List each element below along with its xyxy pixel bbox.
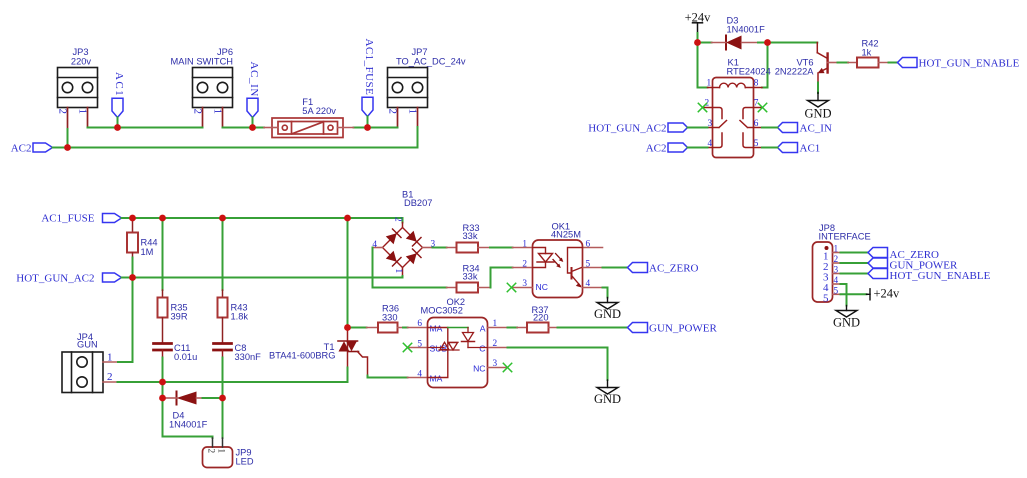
svg-text:5: 5 bbox=[834, 287, 839, 297]
svg-text:2: 2 bbox=[393, 217, 403, 222]
svg-text:4: 4 bbox=[834, 276, 839, 286]
svg-text:AC1: AC1 bbox=[113, 72, 125, 97]
JP8 pin 2 bbox=[833, 262, 841, 264]
wire AC1 flag stem bbox=[117, 117, 119, 127]
svg-text:+24v: +24v bbox=[685, 10, 712, 24]
svg-text:1: 1 bbox=[834, 245, 839, 255]
B1 diode bottom-right bbox=[406, 253, 417, 264]
svg-text:SUB: SUB bbox=[430, 344, 448, 354]
svg-text:1N4001F: 1N4001F bbox=[727, 24, 766, 34]
wire JP8-4 to GND bbox=[841, 284, 847, 306]
svg-text:4N25M: 4N25M bbox=[551, 230, 581, 240]
OK2 unconnected X pin5 bbox=[403, 343, 411, 351]
JP8 pin1 marker dot bbox=[825, 246, 829, 250]
svg-text:1: 1 bbox=[707, 79, 712, 89]
flag AC1 (left) at K1 bbox=[778, 143, 798, 153]
junction D3/VT6 bbox=[764, 39, 771, 46]
OK1 internal LED bbox=[533, 248, 555, 268]
diode D4 bbox=[166, 392, 203, 405]
optocoupler OK2 bbox=[403, 318, 511, 388]
svg-text:330nF: 330nF bbox=[235, 352, 262, 362]
svg-text:33k: 33k bbox=[463, 272, 478, 282]
svg-text:AC1_FUSE: AC1_FUSE bbox=[363, 39, 375, 96]
resistor R35 bbox=[158, 290, 168, 343]
OK2 unconnected X pin3 bbox=[503, 363, 511, 371]
C8 bottom pin bbox=[222, 350, 224, 358]
K1 unconnected X pin2 bbox=[698, 103, 706, 111]
svg-text:2: 2 bbox=[192, 109, 204, 115]
svg-text:6: 6 bbox=[754, 119, 759, 129]
JP6 pin 2 bbox=[202, 108, 204, 128]
svg-text:5A 220v: 5A 220v bbox=[302, 106, 336, 116]
wire R43 column from top bbox=[222, 218, 224, 290]
connector JP8 bbox=[813, 242, 841, 304]
svg-text:5: 5 bbox=[586, 260, 591, 270]
resistor R43 bbox=[218, 290, 228, 343]
capacitor C8 bbox=[214, 344, 232, 351]
K1 coil arcs bbox=[720, 83, 746, 87]
transistor VT6 bbox=[817, 43, 837, 83]
JP7 pin 2 bbox=[397, 108, 399, 128]
wire net AC_IN: JP6-1 to F1 bbox=[223, 127, 265, 129]
junction C11/JP4-2 bbox=[159, 379, 166, 386]
svg-text:5: 5 bbox=[754, 139, 759, 149]
svg-text:GND: GND bbox=[594, 307, 621, 321]
OK1 light arrows bbox=[553, 254, 563, 269]
OK1 pin 2 bbox=[513, 267, 533, 269]
wire VT6 emitter to GND bbox=[817, 83, 819, 94]
svg-text:NC: NC bbox=[473, 364, 485, 374]
wire net HOT_GUN_AC2 mid horizontal bbox=[122, 277, 403, 279]
flag AC_ZERO (left) bbox=[628, 263, 648, 273]
junction T1/R36 bbox=[344, 324, 351, 331]
JP8 pin 5 bbox=[833, 293, 841, 295]
wire AC1_FUSE flag stem bbox=[367, 116, 369, 127]
junction R43 top bbox=[219, 215, 226, 222]
wire R35 column from top bbox=[162, 218, 164, 290]
OK2 internal led bbox=[448, 328, 488, 348]
resistor R33 bbox=[447, 243, 491, 253]
wire JP8-1 to AC_ZERO bbox=[841, 252, 869, 254]
svg-text:4: 4 bbox=[417, 370, 422, 380]
svg-text:2N2222A: 2N2222A bbox=[775, 67, 815, 77]
junction AC2/JP3-2 bbox=[64, 144, 71, 151]
JP8 pin 1 bbox=[833, 252, 841, 254]
wire OK1-5 to AC_ZERO bbox=[603, 267, 628, 269]
ground GND at JP8 bbox=[836, 306, 857, 318]
flag AC2 (left, pointing right) bbox=[33, 143, 53, 152]
capacitor C11 bbox=[154, 344, 172, 351]
JP3 pin 1 bbox=[87, 108, 89, 128]
svg-text:LED: LED bbox=[236, 456, 254, 466]
svg-text:GND: GND bbox=[833, 316, 860, 330]
optocoupler OK1 bbox=[507, 240, 602, 298]
svg-text:1N4001F: 1N4001F bbox=[169, 419, 208, 429]
wire JP8-2 to GUN_POWER bbox=[841, 262, 869, 264]
wire T1 column bbox=[347, 218, 349, 328]
svg-text:AC_IN: AC_IN bbox=[248, 62, 260, 97]
svg-text:MOC3052: MOC3052 bbox=[421, 306, 463, 316]
B1 diode top-left bbox=[386, 233, 397, 244]
svg-text:330: 330 bbox=[382, 312, 398, 322]
K1 pin 5 NO contact bbox=[743, 133, 762, 148]
svg-text:JP6: JP6 bbox=[217, 47, 233, 57]
resistor R37 bbox=[517, 323, 558, 333]
OK2 internal MA rail bbox=[428, 328, 448, 378]
svg-text:AC2: AC2 bbox=[646, 142, 667, 154]
flag HOT_GUN_AC2 (right) mid bbox=[103, 273, 122, 282]
svg-text:220: 220 bbox=[533, 313, 549, 323]
supply +24v at JP8 bbox=[867, 289, 871, 300]
JP7 pin 1 bbox=[417, 108, 419, 128]
wire R37 to GUN_POWER bbox=[558, 327, 628, 329]
wire R33 to OK1-1 bbox=[490, 247, 513, 249]
OK2 pin 6 MA bbox=[408, 327, 428, 329]
JP4 pin 1 bbox=[103, 361, 118, 363]
svg-text:3: 3 bbox=[522, 279, 527, 289]
wire OK2-2 to GND bbox=[508, 348, 608, 381]
resistor R34 bbox=[447, 283, 491, 293]
wire JP8-5 to +24v bbox=[841, 293, 867, 295]
svg-text:MA: MA bbox=[430, 324, 443, 334]
svg-text:1M: 1M bbox=[141, 247, 154, 257]
JP9 pin 1 stub bbox=[222, 438, 224, 447]
wire net AC1_FUSE: F1 to JP7-2 bbox=[354, 127, 398, 129]
wire junction to R36 bbox=[348, 327, 367, 329]
svg-text:2: 2 bbox=[107, 371, 113, 383]
ground GND at OK1 bbox=[597, 298, 618, 310]
relay K1 bbox=[698, 78, 766, 158]
flag HOT_GUN_AC2 (right) bbox=[668, 123, 688, 132]
wire R44 to HOT_GUN_AC2 bbox=[132, 258, 134, 278]
OK1 unconnected X pin3 bbox=[507, 283, 515, 291]
OK2 pin 4 MA bbox=[408, 377, 428, 379]
wire junction right to VT6 collector bbox=[768, 42, 818, 44]
B1 pin 2 stub bbox=[402, 223, 404, 228]
wire D3 to junction right bbox=[758, 42, 768, 44]
K1 pin 3 common + blade bbox=[708, 121, 727, 128]
wire B1-3 to R33 bbox=[433, 247, 447, 249]
svg-text:AC1_FUSE: AC1_FUSE bbox=[41, 213, 94, 225]
svg-text:2: 2 bbox=[522, 260, 527, 270]
wire JP4-1 up to HOT_GUN_AC2 bbox=[118, 278, 133, 363]
flag GUN_POWER (left) bbox=[628, 323, 648, 333]
JP6 pin 1 bbox=[222, 108, 224, 128]
svg-text:1: 1 bbox=[493, 319, 498, 329]
svg-text:1: 1 bbox=[216, 449, 226, 454]
svg-text:1: 1 bbox=[522, 240, 527, 250]
junction D4 anode bbox=[159, 395, 166, 402]
wire net AC2 bottom bbox=[53, 127, 418, 148]
wire net AC1_FUSE mid horizontal bbox=[122, 218, 403, 223]
connector JP4 bbox=[62, 352, 103, 393]
wire +24v node to D3 bbox=[698, 42, 712, 44]
K1 pin 2 NC contact bbox=[703, 108, 723, 119]
K1 coil pin 8 bbox=[745, 87, 762, 89]
svg-text:5: 5 bbox=[823, 292, 829, 304]
svg-text:A: A bbox=[480, 324, 486, 334]
svg-text:1: 1 bbox=[407, 109, 419, 115]
svg-text:1.8k: 1.8k bbox=[231, 312, 249, 322]
JP8 pin 4 bbox=[833, 283, 841, 285]
svg-text:INTERFACE: INTERFACE bbox=[819, 232, 871, 242]
ground GND at VT6 bbox=[808, 93, 829, 108]
svg-text:6: 6 bbox=[586, 240, 591, 250]
wire C11 to JP4-2 net bbox=[162, 358, 164, 383]
svg-text:3: 3 bbox=[493, 359, 498, 369]
flag GUN_POWER (left) at JP8 bbox=[868, 258, 888, 268]
OK2 pin 2 C bbox=[488, 347, 508, 349]
wire K1-6 to AC_IN bbox=[762, 127, 778, 129]
flag AC1_FUSE (down) bbox=[362, 97, 373, 116]
flag AC2 (right) at K1 bbox=[668, 143, 688, 152]
svg-text:0.01u: 0.01u bbox=[174, 352, 197, 362]
svg-text:C: C bbox=[479, 344, 485, 354]
diode D3 bbox=[712, 36, 759, 50]
F1 pin right bbox=[338, 127, 354, 129]
svg-text:2: 2 bbox=[834, 255, 839, 265]
OK1 phototransistor bbox=[568, 248, 583, 288]
svg-text:DB207: DB207 bbox=[404, 198, 432, 208]
C11 bottom pin bbox=[162, 350, 164, 358]
wire HOT_GUN_AC2 to K1-3 bbox=[688, 127, 708, 129]
wire OK2-1 to R37 bbox=[508, 327, 518, 329]
flag AC1 (down) bbox=[112, 98, 123, 117]
wire JP8-3 to HOT_GUN_ENABLE bbox=[841, 273, 869, 275]
junction AC1_FUSE flag bbox=[364, 124, 371, 131]
flag HOT_GUN_ENABLE (left) at JP8 bbox=[868, 269, 888, 279]
svg-text:RTE24024: RTE24024 bbox=[727, 67, 771, 77]
junction R44 top bbox=[129, 215, 136, 222]
bridge B1 bbox=[372, 217, 435, 278]
ground GND at OK2 bbox=[597, 380, 618, 394]
triac T1 bbox=[338, 328, 368, 376]
svg-text:HOT_GUN_ENABLE: HOT_GUN_ENABLE bbox=[890, 270, 991, 282]
svg-text:HOT_GUN_AC2: HOT_GUN_AC2 bbox=[16, 272, 94, 284]
connector JP3 bbox=[58, 68, 98, 108]
svg-text:1: 1 bbox=[212, 109, 224, 115]
junction T1 column top bbox=[344, 215, 351, 222]
B1 pin 4 stub bbox=[373, 247, 383, 249]
OK1 pin 3 NC bbox=[513, 287, 533, 289]
wire right vertical to K1 pin8 bbox=[762, 43, 768, 88]
wire D4 to right column bbox=[203, 397, 223, 399]
svg-text:33k: 33k bbox=[463, 231, 478, 241]
svg-text:JP7: JP7 bbox=[411, 47, 427, 57]
svg-text:NC: NC bbox=[536, 282, 548, 292]
K1 pin 6 common + blade bbox=[740, 121, 762, 128]
wire JP3-2 elbow bbox=[67, 129, 69, 148]
resistor R36 bbox=[367, 323, 404, 333]
svg-text:220v: 220v bbox=[71, 57, 92, 67]
svg-text:MA: MA bbox=[430, 374, 443, 384]
flag AC_IN (down) bbox=[247, 98, 258, 117]
junction D4 cathode col bbox=[219, 395, 226, 402]
svg-text:2: 2 bbox=[387, 109, 399, 115]
wire JP4-2 to T1 bottom bbox=[118, 381, 348, 383]
wire C11 column to D4 bbox=[162, 382, 164, 398]
B1 diode top-right bbox=[406, 231, 417, 242]
wire C8 down to D4 (crosses JP4-2 net) bbox=[222, 358, 224, 399]
svg-text:GND: GND bbox=[594, 392, 621, 406]
wire T1 gate to OK2-4 bbox=[368, 376, 408, 378]
connector JP9 bbox=[203, 438, 233, 468]
wire T1 bottom to JP4-2 net bbox=[347, 368, 349, 383]
svg-text:1: 1 bbox=[393, 269, 403, 274]
wire R42 to flag bbox=[889, 62, 898, 64]
flag AC_ZERO (left) at JP8 bbox=[868, 248, 888, 258]
wire OK1-4 to GND bbox=[603, 288, 608, 298]
B1 diamond bbox=[383, 228, 423, 268]
OK2 pin 1 A bbox=[488, 327, 508, 329]
svg-text:HOT_GUN_AC2: HOT_GUN_AC2 bbox=[588, 122, 666, 134]
B1 pin 3 stub bbox=[423, 247, 433, 249]
svg-text:HOT_GUN_ENABLE: HOT_GUN_ENABLE bbox=[919, 58, 1020, 70]
svg-text:GUN_POWER: GUN_POWER bbox=[649, 322, 717, 334]
wire R36 to OK2-6 bbox=[403, 327, 408, 329]
B1 pin 1 stub bbox=[402, 268, 404, 277]
junction AC_IN flag bbox=[249, 124, 256, 131]
junction R44/JP4-1 bbox=[129, 274, 136, 281]
svg-text:1: 1 bbox=[107, 352, 113, 364]
wire net AC1: JP3-1 to JP6-2 bbox=[88, 127, 203, 129]
OK1 pin 4 bbox=[583, 287, 603, 289]
svg-text:+24v: +24v bbox=[874, 286, 901, 300]
svg-text:AC_ZERO: AC_ZERO bbox=[649, 262, 699, 274]
wire K1-5 to AC1 bbox=[762, 147, 778, 149]
K1 coil pin 1 bbox=[708, 87, 720, 89]
flag HOT_GUN_ENABLE (left) bbox=[898, 58, 918, 68]
OK1 pin 1 bbox=[513, 247, 533, 249]
flag AC1_FUSE (right) mid bbox=[103, 214, 122, 223]
junction +24v/D3 bbox=[694, 39, 701, 46]
svg-text:JP3: JP3 bbox=[72, 47, 88, 57]
svg-text:4: 4 bbox=[586, 279, 591, 289]
junction AC1 flag bbox=[114, 124, 121, 131]
supply +24v top bbox=[693, 23, 703, 33]
fuse F1 bbox=[272, 118, 343, 138]
svg-text:MAIN SWITCH: MAIN SWITCH bbox=[171, 57, 234, 67]
JP3 pin 2 bbox=[67, 108, 69, 130]
svg-text:1k: 1k bbox=[862, 48, 872, 58]
OK1 pin 6 bbox=[583, 247, 603, 249]
wire B1-4 down to R34 bbox=[373, 248, 447, 288]
svg-text:BTA41-600BRG: BTA41-600BRG bbox=[269, 351, 336, 361]
svg-text:5: 5 bbox=[417, 340, 422, 350]
svg-text:TO_AC_DC_24v: TO_AC_DC_24v bbox=[396, 57, 466, 67]
wire JP9 pin1 path bbox=[222, 398, 224, 438]
OK1 pin 5 bbox=[583, 267, 603, 269]
svg-text:6: 6 bbox=[417, 319, 422, 329]
svg-text:AC1: AC1 bbox=[800, 142, 821, 154]
connector JP6 bbox=[193, 68, 233, 108]
svg-text:39R: 39R bbox=[171, 312, 188, 322]
svg-text:2: 2 bbox=[493, 339, 498, 349]
K1 pin 7 NC contact bbox=[743, 108, 763, 119]
svg-text:2: 2 bbox=[57, 109, 69, 115]
resistor R44 bbox=[127, 218, 138, 258]
flag AC_IN (left) at K1 bbox=[778, 123, 798, 133]
svg-text:R44: R44 bbox=[141, 237, 158, 247]
svg-text:8: 8 bbox=[754, 79, 759, 89]
B1 diode bottom-left bbox=[386, 251, 397, 262]
wire R34 up to OK1-2 bbox=[491, 268, 513, 288]
svg-text:GUN: GUN bbox=[77, 340, 98, 350]
resistor R42 bbox=[848, 58, 889, 68]
svg-text:GND: GND bbox=[804, 107, 831, 121]
JP4 pin 2 bbox=[103, 381, 118, 383]
JP8 pin 3 bbox=[833, 273, 841, 275]
F1 pin left bbox=[264, 127, 278, 129]
OK2 pin 3 NC bbox=[488, 367, 508, 369]
svg-text:2: 2 bbox=[206, 449, 216, 454]
wire AC2 to K1-4 bbox=[688, 147, 708, 149]
JP9 pin 2 stub bbox=[212, 438, 214, 447]
junction R35 top bbox=[159, 215, 166, 222]
svg-text:3: 3 bbox=[834, 266, 839, 276]
svg-text:AC_IN: AC_IN bbox=[800, 122, 832, 134]
svg-text:AC2: AC2 bbox=[11, 142, 32, 154]
OK2 internal triac bbox=[428, 342, 460, 350]
K1 pin 4 NO contact bbox=[708, 133, 723, 148]
wire JP9 pin2 path bbox=[163, 398, 213, 438]
svg-text:1: 1 bbox=[77, 109, 89, 115]
K1 unconnected X pin7 bbox=[758, 103, 766, 111]
wire D3 cathode-left vertical to K1 pin1 bbox=[698, 43, 708, 88]
wire AC_IN flag stem bbox=[252, 117, 254, 127]
wire VT6 base to R42 bbox=[838, 62, 849, 64]
OK2 pin 5 SUB bbox=[408, 347, 428, 349]
connector JP7 bbox=[388, 68, 428, 108]
